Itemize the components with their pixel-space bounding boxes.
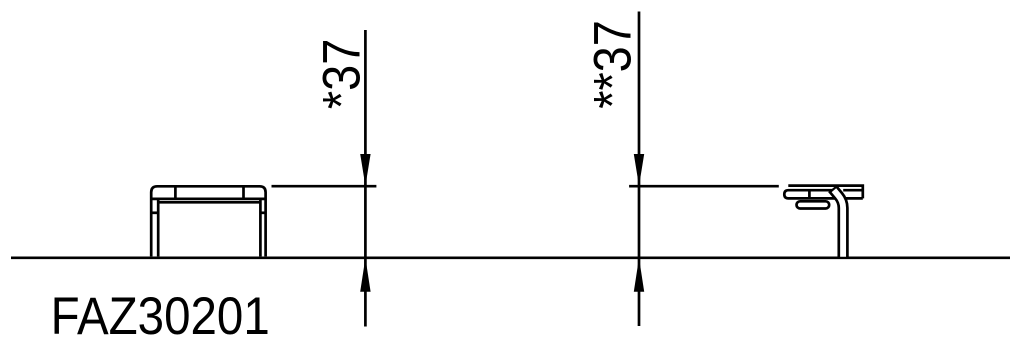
svg-text:**37: **37 xyxy=(583,20,642,109)
svg-text:FAZ30201: FAZ30201 xyxy=(51,287,270,346)
svg-text:*37: *37 xyxy=(312,39,371,109)
